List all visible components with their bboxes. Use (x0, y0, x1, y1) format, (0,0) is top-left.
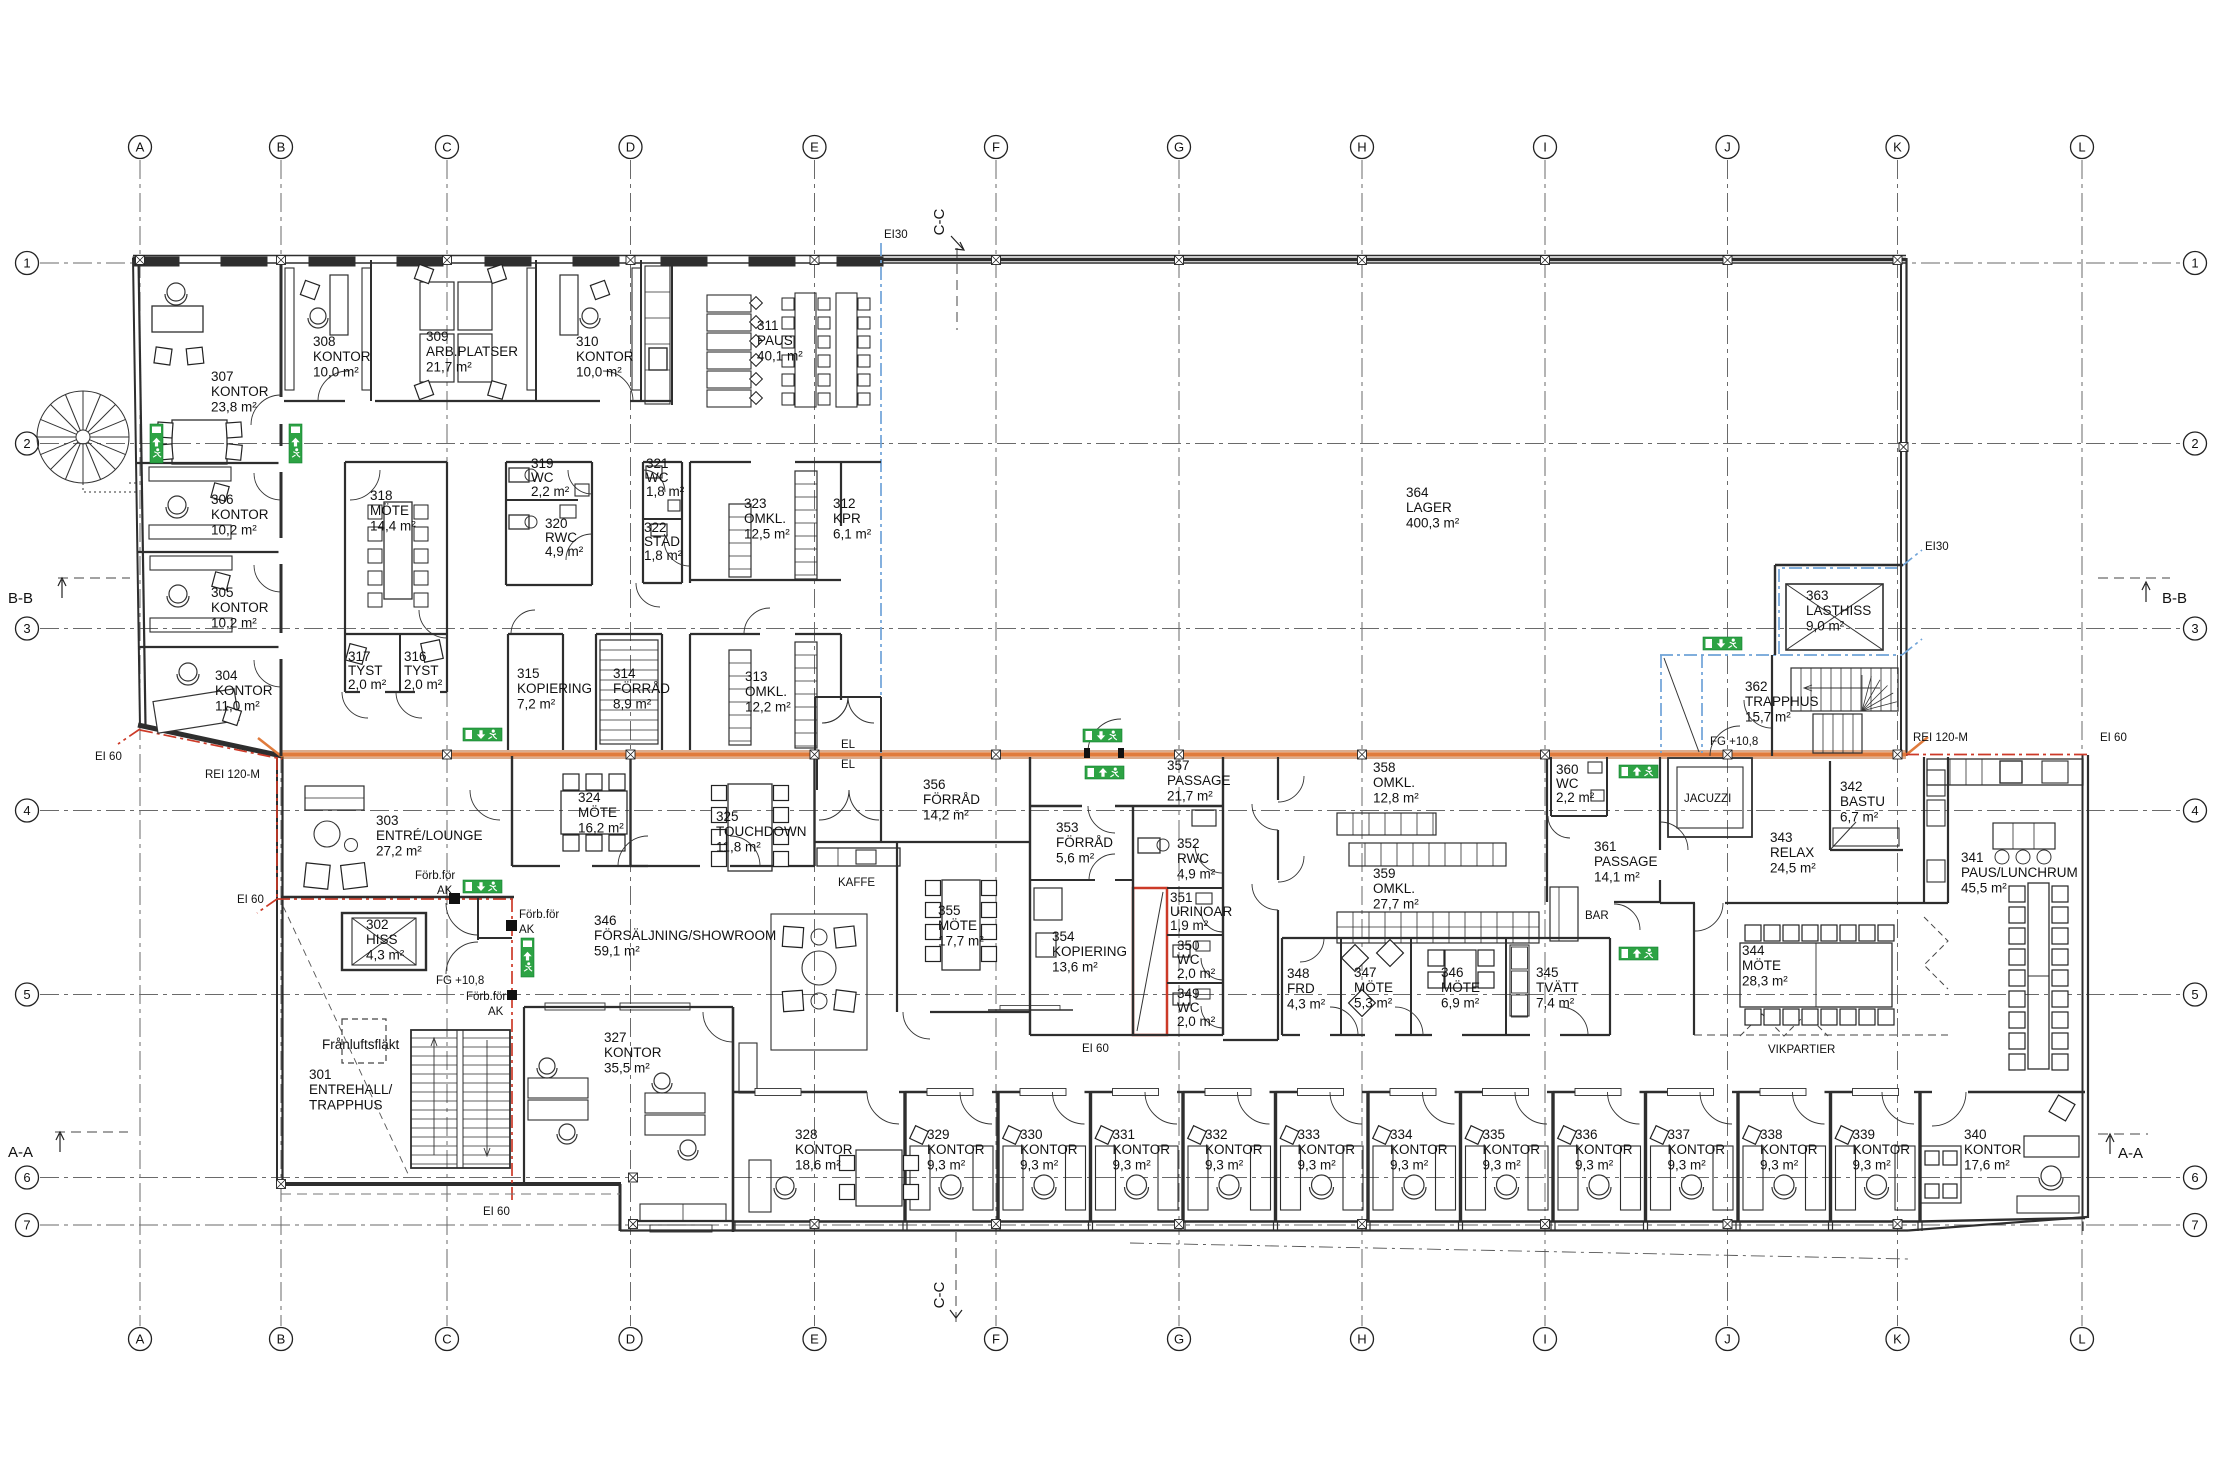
svg-text:BAR: BAR (1585, 910, 1609, 922)
EI30 blue vestibule east wall (1701, 655, 1703, 753)
door arc 348 (1300, 938, 1324, 962)
svg-text:1: 1 (23, 256, 30, 271)
wc stack east wall (1222, 757, 1224, 1035)
EL closet double door (822, 697, 848, 723)
grid row 3 line (40, 628, 2182, 630)
office 332 chair (1219, 1175, 1239, 1195)
office 331 desks (1096, 1146, 1116, 1210)
washers 345 (1510, 945, 1529, 1016)
partition wall office 337 west (1644, 1092, 1647, 1222)
svg-text:3: 3 (2191, 621, 2198, 636)
office 329 monitor (910, 1126, 929, 1145)
svg-text:EI 60: EI 60 (483, 1206, 510, 1218)
grid column G line (1178, 160, 1180, 1326)
urinoar 351 fixture (1196, 893, 1212, 904)
room 327 sofa (640, 1204, 726, 1221)
partition 310|pantry (640, 260, 642, 401)
grid bubble I top (1534, 136, 1557, 159)
grid bubble 5 right (2184, 983, 2207, 1006)
exit sign near wc 360 (1619, 765, 1658, 778)
lounge 303 south wall (281, 896, 514, 898)
EI30 blue diagonal tick lower (1902, 639, 1922, 655)
door arc stad 322 (636, 583, 660, 607)
cabinet strip room 310 west (527, 268, 536, 390)
wc 351 south wall (1167, 934, 1223, 936)
door arc room 308 (318, 371, 348, 401)
room 310 desk (560, 275, 578, 335)
double door to warehouse at EL (822, 697, 848, 723)
room 305 desk shelf (150, 556, 232, 570)
bastu 342 walls (1829, 761, 1831, 850)
svg-text:4: 4 (2191, 803, 2198, 818)
grid bubble L top (2071, 136, 2094, 159)
svg-text:5: 5 (2191, 987, 2198, 1002)
svg-text:J: J (1724, 1332, 1731, 1347)
footing dashed line below hall (281, 1193, 620, 1195)
lockers room 323 col2 (795, 471, 817, 579)
door arc 360 (1548, 816, 1570, 838)
door arc 352 (1195, 845, 1223, 873)
block 353/354 west wall / 356 east wall (1029, 757, 1031, 1035)
office 338 monitor (1743, 1126, 1762, 1145)
outer wall bottom-right slanted (1908, 1217, 2087, 1231)
wc 360 fixture (1588, 762, 1602, 773)
room 305 south wall (138, 646, 281, 648)
grid bubble 7 left (16, 1214, 39, 1237)
lockers 358 row2 (1349, 843, 1506, 866)
showroom south door line (988, 1009, 1073, 1011)
door arc quiet 317 (342, 692, 368, 718)
svg-text:D: D (626, 140, 635, 155)
room 327 north wall (524, 1006, 733, 1008)
stair 362 winders (1861, 675, 1863, 711)
exit sign lounge AK door (463, 880, 502, 893)
meeting 355 door arc (903, 1012, 930, 1039)
partition 309|310 (535, 260, 537, 401)
lounge 303 east wall / meeting 324 west wall (511, 756, 513, 866)
chairs 347 (1342, 945, 1369, 972)
svg-text:C: C (442, 1332, 451, 1347)
svg-text:E: E (810, 140, 819, 155)
door arc omkl 313 vest (744, 608, 770, 634)
exit sign lift lobby (1703, 637, 1742, 650)
section B-B left mark (58, 577, 130, 579)
quiet rooms 317/316 walls (345, 633, 447, 635)
EI60 red line right segment to L (1906, 754, 2087, 756)
svg-text:AK: AK (519, 924, 535, 936)
svg-text:4: 4 (23, 803, 30, 818)
door arc 358 (1278, 776, 1304, 802)
office 339 chair (1867, 1175, 1887, 1195)
warehouse door arc near 357 (1088, 719, 1121, 752)
grid bubble 2 left (16, 432, 39, 455)
svg-text:VIKPARTIER: VIKPARTIER (1768, 1044, 1835, 1056)
office 333 monitor (1280, 1126, 1299, 1145)
svg-text:C-C: C-C (931, 209, 948, 236)
meeting 344 west wall (1693, 903, 1695, 1035)
svg-text:5: 5 (23, 987, 30, 1002)
grid bubble 2 right (2184, 432, 2207, 455)
exit sign warehouse side of passage door (1083, 729, 1122, 742)
section B-B right mark (2098, 577, 2170, 579)
svg-text:B: B (277, 140, 286, 155)
bastu bench (1833, 828, 1899, 846)
grid row 2 line (40, 443, 2182, 445)
room 311 tables west (707, 295, 751, 312)
grid bubble L bottom (2071, 1328, 2094, 1351)
svg-text:6: 6 (2191, 1170, 2198, 1185)
svg-text:JACUZZI: JACUZZI (1684, 793, 1731, 805)
lockers 359 double row (1337, 912, 1539, 943)
grid bubble J top (1716, 136, 1739, 159)
grid bubble A bottom (129, 1328, 152, 1351)
room 307 table (172, 420, 227, 464)
door arc rwc 320 (566, 534, 592, 560)
grid bubble D bottom (619, 1328, 642, 1351)
column marker K row2 (1899, 443, 1908, 452)
office 339 monitor (1835, 1126, 1854, 1145)
outer wall step down at D (619, 1184, 622, 1231)
exit sign spine wall room 307 (289, 424, 302, 463)
rwc 352 fixtures (1138, 838, 1160, 853)
room 306 chair (168, 496, 186, 514)
door arcs rooms 347/346/345 (1330, 1007, 1358, 1035)
outer wall right of lunchroom (2082, 755, 2084, 1219)
svg-text:L: L (2078, 1332, 2085, 1347)
office 330 monitor (1003, 1126, 1022, 1145)
svg-text:K: K (1893, 1332, 1902, 1347)
room 311 long tables east (795, 293, 816, 407)
grid bubble 4 left (16, 799, 39, 822)
orange diagonal tick at K (1906, 737, 1928, 755)
door arc omkl 323 (664, 540, 690, 566)
grid bubble B top (270, 136, 293, 159)
section A-A right mark (2098, 1133, 2148, 1135)
office 340 sideboard (2017, 1196, 2079, 1213)
block 353/354 north wall (1030, 805, 1082, 807)
door arc quiet 316 (396, 692, 422, 718)
office 334 monitor (1373, 1126, 1392, 1145)
wc 350 fixture (1173, 945, 1190, 957)
door arc room 305 (254, 565, 281, 592)
room 327 south wall (633, 1220, 733, 1222)
grid row 7 line (40, 1224, 2182, 1226)
lunchroom chairs east col (2052, 886, 2068, 902)
door arc 361 to relax (1614, 904, 1640, 930)
EI60 red line over diagonal wall (140, 730, 282, 759)
room 309 chairs (414, 264, 433, 283)
svg-text:7: 7 (23, 1218, 30, 1233)
office 335 monitor (1465, 1126, 1484, 1145)
grid bubble C top (436, 136, 459, 159)
office 331 chair (1127, 1175, 1147, 1195)
section C-C bottom line (955, 1232, 957, 1322)
orange diagonal tick at left end (258, 738, 281, 756)
grid bubble F top (985, 136, 1008, 159)
exit sign corridor at C (463, 728, 502, 741)
showroom lounge chairs (782, 926, 803, 947)
grid bubble 3 right (2184, 617, 2207, 640)
spiral staircase outside west wall (37, 391, 137, 492)
svg-text:Frånluftsfläkt: Frånluftsfläkt (322, 1037, 400, 1052)
EI60 red line showroom west vertical (511, 899, 513, 1200)
room 345 east wall (1609, 938, 1611, 1035)
lockers 358 row1 (1337, 813, 1436, 835)
office 334 chair (1404, 1175, 1424, 1195)
svg-text:EI 60: EI 60 (2100, 732, 2127, 744)
office window mullions (734, 1222, 736, 1232)
section A-A left mark (55, 1131, 128, 1133)
room 306 desk shelf (149, 467, 231, 481)
door arc kopiering 315 (511, 610, 535, 634)
svg-text:EI 60: EI 60 (95, 751, 122, 763)
EI60 red line lounge bottom (277, 898, 514, 900)
room 310 chair (582, 308, 598, 324)
office 336 desks (1558, 1146, 1578, 1210)
room 307 table chairs (157, 422, 173, 438)
column markers hall corners (277, 1180, 286, 1189)
svg-text:7: 7 (2191, 1218, 2198, 1233)
grid bubble 7 right (2184, 1214, 2207, 1237)
office 335 chair (1497, 1175, 1517, 1195)
door arc 350 (1201, 958, 1223, 980)
partition wall office 332 west (1181, 1092, 1184, 1222)
office 329 desks (910, 1146, 930, 1210)
omkl 358/359 west wall (1281, 938, 1283, 1035)
room 318 meeting table (384, 502, 412, 599)
office 333 desks (1281, 1146, 1301, 1210)
storage 356 south wall (896, 841, 898, 843)
svg-text:E: E (810, 1332, 819, 1347)
grid bubble E top (803, 136, 826, 159)
partition 308|309 (370, 260, 372, 401)
svg-text:B: B (277, 1332, 286, 1347)
wc 319 fixtures (509, 468, 529, 482)
stair 362 arrow (1805, 687, 1880, 689)
office 340 chair (2041, 1166, 2061, 1186)
svg-text:EL: EL (841, 759, 856, 771)
meeting 344 chairs bottom (1745, 1009, 1761, 1025)
svg-text:FG +10,8: FG +10,8 (436, 975, 484, 987)
partition wall office 330 west (996, 1092, 999, 1222)
office 340 table (1920, 1146, 1961, 1203)
grid bubble D top (619, 136, 642, 159)
office 337 chair (1682, 1175, 1702, 1195)
storage 356 south wall (815, 841, 1030, 843)
grid column L line (2081, 160, 2083, 1326)
office 336 chair (1589, 1175, 1609, 1195)
lunchroom long table (2028, 883, 2049, 1069)
grid row 4 line (40, 810, 2182, 812)
meeting 344 table (1740, 943, 1892, 1007)
svg-text:AK: AK (437, 885, 453, 897)
svg-text:J: J (1724, 140, 1731, 155)
door jambs warehouse passage (1084, 748, 1090, 758)
grid column K line (1897, 160, 1899, 1326)
partition wall office 339 west (1829, 1092, 1832, 1222)
office door arcs (867, 1092, 899, 1124)
grid column E line (814, 160, 816, 1326)
office 328 chair (776, 1177, 794, 1195)
partition wall office 331 west (1089, 1092, 1092, 1222)
svg-text:EI30: EI30 (1925, 541, 1949, 553)
touchdown 325 chairs (712, 786, 727, 801)
EI60 shaft (red) (1133, 888, 1167, 1035)
touchdown 325 east wall at E (813, 756, 815, 866)
EI30 blue diagonal tick upper (1902, 550, 1922, 566)
svg-text:F: F (992, 140, 1000, 155)
office corridor windows (755, 1089, 801, 1096)
door arc 351 (1201, 910, 1223, 932)
svg-text:C: C (442, 140, 451, 155)
office 337 desks (1651, 1146, 1671, 1210)
room 305 chair (169, 585, 187, 603)
svg-text:EI30: EI30 (884, 229, 908, 241)
grid bubble J bottom (1716, 1328, 1739, 1351)
door arc 325 (730, 836, 760, 866)
door arc warehouse lobby (1744, 700, 1772, 728)
room 307 chair (167, 283, 185, 301)
svg-text:A-A: A-A (8, 1144, 33, 1161)
svg-text:EI 60: EI 60 (1082, 1043, 1109, 1055)
door arc wc 319 (568, 470, 592, 494)
room 307 guest chairs (154, 347, 172, 365)
freight lift 363 walls (1774, 565, 1776, 655)
grid bubble C bottom (436, 1328, 459, 1351)
grid bubble H bottom (1351, 1328, 1374, 1351)
franluftsflakt dashed box (342, 1019, 386, 1063)
svg-text:Förb.för: Förb.för (415, 870, 455, 882)
svg-text:KAFFE: KAFFE (838, 877, 875, 889)
office 338 chair (1774, 1175, 1794, 1195)
door arc wc 321 (643, 470, 665, 492)
svg-text:1: 1 (2191, 256, 2198, 271)
top wall pillar segments (133, 257, 179, 266)
meeting 355 table (942, 880, 980, 970)
kaffe counter (817, 848, 900, 866)
room 306 south wall (137, 551, 281, 553)
grid column D line (630, 160, 632, 1326)
grid column B line (280, 160, 282, 1326)
door arc meeting 318 (419, 610, 447, 638)
wall 353|354 (1030, 879, 1095, 881)
svg-text:A: A (136, 1332, 145, 1347)
partition wall office 338 west (1736, 1092, 1739, 1222)
door arc lounge to 324 (470, 790, 500, 820)
lockers room 313 col2 (795, 642, 817, 748)
office 339 desks (1836, 1146, 1856, 1210)
lounge 303 armchairs (304, 863, 330, 889)
svg-text:L: L (2078, 140, 2085, 155)
outer wall right of warehouse (1900, 258, 1902, 756)
svg-text:EI 60: EI 60 (237, 894, 264, 906)
grid bubble 1 left (16, 252, 39, 275)
door arc 359 (1278, 856, 1304, 882)
svg-text:H: H (1357, 140, 1366, 155)
freight lift 363 car (1786, 584, 1883, 650)
room 309 desks (420, 282, 454, 330)
rooms 348-345 south wall (1282, 1034, 1300, 1036)
room 327 west wall (523, 1007, 525, 1184)
office 334 desks (1373, 1146, 1393, 1210)
svg-text:2: 2 (2191, 436, 2198, 451)
hall diagonal section line (283, 906, 409, 1176)
office 330 chair (1034, 1175, 1054, 1195)
room 307 desk (152, 306, 203, 332)
meeting 324 south wall (512, 865, 560, 867)
svg-text:FG +10,8: FG +10,8 (1710, 736, 1758, 748)
column markers on fire wall (443, 750, 452, 759)
svg-text:2: 2 (23, 436, 30, 451)
grid bubble A top (129, 136, 152, 159)
wall spine at column B (280, 260, 283, 756)
svg-text:REI 120-M: REI 120-M (205, 769, 260, 781)
svg-text:G: G (1174, 1332, 1184, 1347)
grid bubble G bottom (1168, 1328, 1191, 1351)
grid column C line (446, 160, 448, 1326)
grid bubble 3 left (16, 617, 39, 640)
grid column J line (1727, 160, 1729, 1326)
svg-text:B-B: B-B (8, 590, 33, 607)
pantry cabinets (645, 266, 670, 404)
grid bubble F bottom (985, 1328, 1008, 1351)
rwc 352 south wall (1167, 887, 1223, 889)
EL closet above fire wall (814, 697, 816, 752)
stair 362 treads lower (1813, 714, 1862, 753)
office 331 monitor (1095, 1126, 1114, 1145)
door arcs passage 357 (1252, 804, 1278, 830)
office 332 monitor (1188, 1126, 1207, 1145)
meeting 344 vikpartier dashes (1924, 917, 1948, 989)
partition 348|347 (1340, 938, 1342, 1035)
room 308 chair (310, 308, 326, 324)
svg-text:F: F (992, 1332, 1000, 1347)
partition wall office 333 west (1274, 1092, 1277, 1222)
room 308 desk (330, 275, 348, 335)
meeting 346 table (1445, 950, 1476, 988)
office 340 corner chair (2049, 1095, 2075, 1121)
spine wall door gaps (279, 397, 284, 424)
copier 354 (1034, 888, 1062, 920)
passage 357 south wall (1223, 1039, 1278, 1041)
room 327 door arc (703, 1012, 733, 1042)
touchdown 325 table (728, 784, 772, 871)
door arc room 304 (254, 660, 281, 687)
room 318 door arc top (350, 470, 380, 500)
section C-C top line (956, 248, 958, 330)
EI60 red line left vertical (276, 757, 278, 901)
stairs 301 treads (411, 1037, 457, 1039)
grid bubble 6 left (16, 1166, 39, 1189)
room 327 north windows (545, 1003, 605, 1010)
office 340 desk (2024, 1136, 2079, 1157)
door arc 353 (1089, 854, 1115, 880)
column markers on bottom wall (810, 1220, 819, 1229)
office 335 desks (1466, 1146, 1486, 1210)
EI30 blue horizontal at lift lobby (1660, 654, 1902, 656)
meeting 324 table (561, 791, 627, 834)
grid bubble G top (1168, 136, 1191, 159)
block east wall (1132, 806, 1134, 1035)
svg-text:6: 6 (23, 1170, 30, 1185)
door arc 349 (1201, 1006, 1223, 1028)
EI30 blue vertical at warehouse west (880, 243, 882, 753)
wc 350 south wall (1167, 982, 1223, 984)
partition wall office 335 west (1459, 1092, 1462, 1222)
outer wall bottom window band (620, 1229, 1908, 1231)
office row north wall (733, 1091, 867, 1093)
vestibule wall below lounge (477, 897, 479, 940)
